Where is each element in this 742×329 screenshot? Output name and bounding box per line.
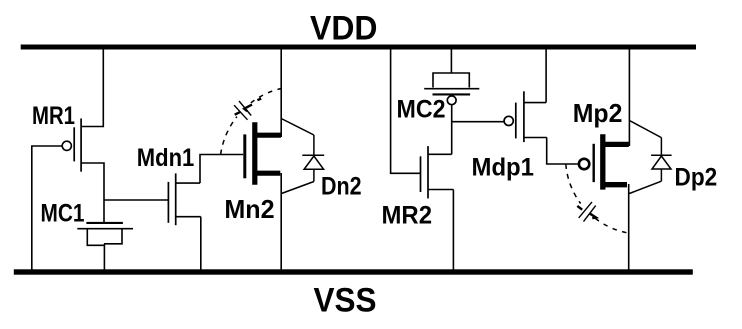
wire MR1 gate to VSS [32,146,62,272]
svg-text:Mp2: Mp2 [573,98,623,128]
cut slashes right [579,202,592,218]
transistor Mdp1 (PMOS) [504,91,547,142]
transistor Mn2 (bold NMOS) [245,122,281,185]
svg-text:Dp2: Dp2 [675,164,718,192]
wire Mp2 drain to VSS [628,184,630,272]
wire MR2 source to VSS [452,190,454,273]
wire Mn2 source to VSS [280,173,282,272]
wire Mdn1 source to VSS [200,217,202,272]
capacitor MC1 (MOS cap) [77,223,133,272]
arrow marks right [577,206,596,218]
VSS rail [14,269,693,274]
transistor MR1 (PMOS) [62,119,81,172]
svg-text:MC2: MC2 [397,96,446,124]
capacitor MC2 (PMOS cap at VDD) [424,47,479,105]
wire VDD to Mdp1 source [545,47,547,103]
dashed arc right (removed connection) [566,164,581,204]
wire node B to Mdp1 gate [452,121,504,123]
transistor MR2 (NMOS) [421,146,454,198]
wire Mdn1 drain to Mn2 gate [200,155,243,184]
wire Mdp1 drain to Mp2 gate [547,138,578,165]
transistor Mdn1 (NMOS) [168,173,200,225]
svg-text:Mdn1: Mdn1 [137,144,195,172]
cut slashes left [239,101,251,116]
svg-text:Mdp1: Mdp1 [472,153,535,181]
wire MR1 drain down to MC1 gate [81,163,104,223]
wire VDD to MR2 gate [391,47,421,173]
svg-text:VSS: VSS [314,282,377,320]
diode Dp2 [629,121,671,194]
svg-text:MR2: MR2 [382,202,433,230]
svg-text:VDD: VDD [310,10,378,48]
svg-text:MR1: MR1 [32,102,75,130]
VDD rail [21,45,696,50]
arrow marks left [235,99,262,115]
svg-text:Dn2: Dn2 [321,173,362,201]
wire VDD to MR1 source [81,47,103,127]
transistor Mp2 (bold PMOS) [579,134,629,189]
diode Dn2 [281,119,324,194]
wire VDD to Mp2 source [628,47,630,146]
svg-text:Mn2: Mn2 [224,194,274,224]
svg-text:MC1: MC1 [41,199,85,227]
wire node A to Mdn1 gate [104,199,168,201]
dashed arc left (removed connection) [221,117,237,155]
wire MR2 drain to node B [451,105,453,155]
wire VDD to Mn2 drain [280,47,282,137]
